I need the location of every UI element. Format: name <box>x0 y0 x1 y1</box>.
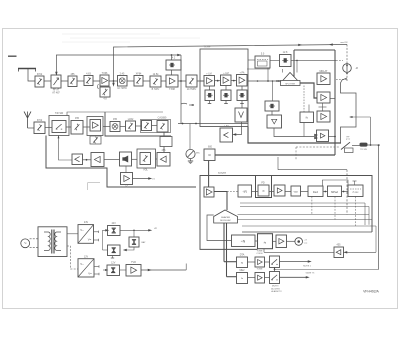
svg-text:3702: 3702 <box>37 119 43 122</box>
svg-text:AT 487: AT 487 <box>52 91 60 94</box>
tone switch TA3 <box>270 256 280 268</box>
svg-text:ACCESS: ACCESS <box>271 287 280 290</box>
filter F5 10.7MHz <box>134 76 143 87</box>
wires tone row B <box>227 276 237 278</box>
filter F7 <box>186 75 197 87</box>
svg-text:V=: V= <box>88 238 92 242</box>
svg-text:TX88: TX88 <box>169 88 175 91</box>
wire chain to XT1 <box>272 81 274 101</box>
amplifier TA1 <box>204 76 215 87</box>
amplifier A2 <box>166 75 178 87</box>
svg-text:CA3089: CA3089 <box>158 116 167 119</box>
wires long vco outputs <box>240 202 365 204</box>
ac source G1 <box>21 239 30 248</box>
svg-text:455: 455 <box>162 149 167 152</box>
ground stubs under modules <box>209 101 211 104</box>
wire AB5 output <box>133 178 151 180</box>
scan artifact dash top left <box>8 55 17 57</box>
svg-text:rf osc: rf osc <box>353 191 360 194</box>
discriminator XT2 <box>267 115 282 128</box>
wire supply link <box>102 230 104 250</box>
svg-text:+ LM: + LM <box>206 72 211 75</box>
wires synth row <box>252 191 259 193</box>
fuse FS2 <box>129 237 139 247</box>
wire group to OSC1 <box>248 59 255 61</box>
svg-text:ALARM TX: ALARM TX <box>271 290 282 293</box>
fuse FS1 <box>108 226 121 236</box>
wire RC2 output stub <box>330 98 335 100</box>
svg-text:10.7MHz: 10.7MHz <box>187 88 197 91</box>
svg-text:≈: ≈ <box>208 154 211 159</box>
amplifier TA3 driver <box>237 75 248 87</box>
svg-text:2.45: 2.45 <box>120 73 125 76</box>
svg-text:SYNTH: SYNTH <box>218 172 226 175</box>
audio oscillator SB1 <box>300 112 314 123</box>
phase detector PD1 shield <box>256 176 272 198</box>
divider DV1 <box>308 186 323 197</box>
limiter LIM1 <box>220 128 233 142</box>
wire relay to gate line <box>368 144 381 146</box>
wire vco to divider N <box>207 215 232 241</box>
filter F4 below amplifier A1 <box>100 87 110 97</box>
svg-text:TONE: TONE <box>256 268 263 270</box>
divider DR1 <box>238 185 252 197</box>
wire gate tx y269 <box>275 269 379 271</box>
wire chain to splitter <box>248 80 281 82</box>
filter F2 <box>68 76 77 87</box>
wire control line y46 <box>114 45 348 85</box>
buffer op box RC4 <box>317 130 329 142</box>
wires lower synth row <box>255 240 258 242</box>
svg-text:vco: vco <box>294 191 299 194</box>
svg-text:VOL: VOL <box>143 169 148 172</box>
regulator amp RG1 <box>126 265 141 277</box>
crystal oscillator X1 above amplifier A2 <box>166 60 181 70</box>
svg-text:TONE: TONE <box>256 250 263 252</box>
svg-text:+ LM: + LM <box>223 72 228 75</box>
wire RA1 to mixer <box>103 126 110 128</box>
svg-text:455: 455 <box>337 244 342 247</box>
rf amplifier RA1 <box>90 120 101 132</box>
converter CV2 12V <box>78 259 94 277</box>
svg-text:LIM: LIM <box>225 125 229 128</box>
wire detector line y169 <box>278 169 347 171</box>
svg-text:~: ~ <box>24 241 27 247</box>
svg-text:PTT: PTT <box>346 139 351 141</box>
svg-text:MDLAT: MDLAT <box>320 70 328 73</box>
voltage regulator V1 <box>235 108 247 122</box>
wire meter dashes <box>346 45 348 64</box>
svg-text:VFH492/A: VFH492/A <box>363 290 379 294</box>
svg-text:BAT: BAT <box>141 241 146 244</box>
microphone meter MIC1 <box>189 124 191 150</box>
wire arrow y117 <box>350 116 370 118</box>
antenna switch RS1 <box>52 121 66 133</box>
if output amp RXO <box>334 247 344 258</box>
svg-text:MUTE /: MUTE / <box>272 286 279 288</box>
svg-text:+ PA: + PA <box>239 71 244 74</box>
af preamp AF1 <box>204 149 215 161</box>
loop filter LF1 <box>274 185 285 196</box>
svg-text:455: 455 <box>113 118 118 121</box>
meter M1 with arrow <box>343 64 352 73</box>
wires dashed under synth row <box>311 197 313 215</box>
svg-text:12V: 12V <box>111 262 116 265</box>
wire meter zigzag to ptt <box>341 78 357 143</box>
mixer RMX1 <box>110 122 120 132</box>
wire heavy AF1 audio bus <box>215 154 335 156</box>
filter F6 <box>150 76 161 87</box>
pa transistor module TB3 <box>237 90 247 101</box>
wire between tone switches <box>274 268 276 272</box>
audio amp AB4 <box>157 153 170 167</box>
wire OSC1 to modulator <box>270 59 280 61</box>
reference crystal XO1 <box>348 185 363 197</box>
audio amp AB1 <box>91 153 104 167</box>
divider DN1 <box>232 235 256 247</box>
svg-text:12.5k: 12.5k <box>153 73 160 76</box>
svg-text:TX66: TX66 <box>102 72 108 75</box>
svg-text:GATE TX: GATE TX <box>306 271 315 274</box>
wire FS1 output +B <box>120 229 149 231</box>
pa transistor module TB1 <box>205 90 215 101</box>
quad detector QD1 <box>160 137 172 147</box>
svg-text:MUTE 1: MUTE 1 <box>303 266 311 268</box>
wire XT2 to RC4 <box>274 128 317 137</box>
mod amplifier SA1 <box>204 187 214 197</box>
svg-text:ME2: ME2 <box>240 269 246 272</box>
modulator box MOD1 <box>280 55 292 67</box>
fuse FS4 12V <box>107 265 120 276</box>
wire AGC line y55 <box>56 55 181 75</box>
svg-text:MIC: MIC <box>196 152 200 154</box>
wire V1 to group border <box>241 122 243 127</box>
svg-text:V~: V~ <box>80 262 84 266</box>
wire group border y112 <box>67 112 163 116</box>
switch PTT <box>341 142 350 149</box>
volume block AB3 outer <box>137 149 156 168</box>
wires transformer outputs <box>67 233 78 235</box>
wire heavy agc x105 <box>105 112 171 136</box>
wires tone row A <box>224 261 237 263</box>
wire RXO output to PD2 <box>264 251 334 253</box>
mixer MX1 <box>118 76 128 87</box>
svg-text:MODULAT: MODULAT <box>220 219 231 222</box>
wire switch control to squelch <box>59 136 73 161</box>
if amplifier RF5 <box>157 121 168 133</box>
svg-text:TR SW: TR SW <box>360 149 367 151</box>
relay RL1 <box>360 143 368 147</box>
wire RC2 to RC3 <box>321 103 323 111</box>
wire under OSC1 <box>247 68 270 70</box>
svg-text:V=: V= <box>88 271 92 275</box>
speaker amp AB5 <box>121 173 133 185</box>
group TX RF output stage <box>200 49 248 127</box>
svg-text:SHAPER: SHAPER <box>221 216 230 219</box>
filter RF3 <box>126 121 136 131</box>
phase detector PD1 <box>258 185 269 196</box>
wire RC4 output to heavy bus <box>329 136 336 138</box>
filter RF2 <box>71 121 83 135</box>
amplifier TA2 <box>221 75 232 86</box>
svg-text:10.7MHz: 10.7MHz <box>117 87 127 90</box>
group synthesizer border <box>200 176 372 250</box>
wires ac to transformer <box>30 238 38 240</box>
svg-text:CODE: CODE <box>256 253 263 255</box>
wires converter output taps <box>94 231 99 233</box>
wire heavy SA1 out <box>214 192 227 211</box>
wire vertical x181 <box>180 55 182 124</box>
attenuator AT1 <box>51 75 61 88</box>
if group outline <box>141 120 171 133</box>
converter CV1 24V <box>78 225 94 244</box>
svg-text:DTA: DTA <box>240 254 245 257</box>
phase detector PD2 <box>258 234 273 249</box>
squelch SQ1 <box>72 154 83 165</box>
tone oscillator TA1 <box>237 257 248 268</box>
tone switch TB3 <box>270 272 280 284</box>
wire heavy AF1 to synth amp <box>208 161 210 188</box>
amplifier A1 <box>100 75 109 86</box>
wire dashed x347 down <box>346 170 348 215</box>
svg-text:4.83: 4.83 <box>86 73 91 76</box>
wire MOD1 output bus <box>291 59 336 61</box>
svg-text:÷R: ÷R <box>243 190 248 194</box>
if amplifier RF4 <box>142 121 152 131</box>
ghost print-through lines <box>62 33 160 35</box>
svg-text:AF: AF <box>125 185 129 188</box>
wire gate vertical x378 <box>378 145 380 269</box>
svg-text:SPLITTER: SPLITTER <box>285 83 295 85</box>
svg-text:÷N: ÷N <box>241 240 246 244</box>
wire heavy TX feed to PTT <box>248 127 341 144</box>
wires amplifier to module <box>209 86 211 90</box>
svg-text:B 7kHz: B 7kHz <box>152 88 161 91</box>
wire RG1 long output <box>141 269 186 271</box>
svg-text:3702: 3702 <box>37 73 43 76</box>
antenna switch RS1 outer <box>49 116 69 136</box>
filter RF2b below RA1 <box>90 136 101 144</box>
wire heavy audio return <box>46 136 196 188</box>
svg-text:12V: 12V <box>84 255 89 258</box>
svg-text:PD: PD <box>261 181 265 184</box>
wire PTT to relay <box>352 145 360 147</box>
wire RF5 to detector <box>163 132 165 153</box>
wire heavy splitter TX out <box>300 83 317 98</box>
wire splitter rx dashes <box>296 146 340 148</box>
vco modulator trapezoid VCO1 <box>214 210 238 223</box>
svg-text:600: 600 <box>208 146 213 149</box>
filter F3 <box>84 76 93 86</box>
antenna AN2 whip <box>24 112 31 129</box>
wire bias line y123.5 <box>178 123 248 125</box>
filter F1 input bandpass <box>35 76 44 87</box>
svg-text:Decl: Decl <box>313 190 319 194</box>
amplifier RC2 <box>317 92 330 103</box>
wire divider jog top <box>322 180 348 186</box>
svg-text:24V: 24V <box>84 221 89 224</box>
ground under MIC1 <box>190 159 192 161</box>
wire main chain y81 <box>35 80 204 82</box>
svg-text:V~: V~ <box>80 228 84 232</box>
volume block AB3 <box>140 153 151 165</box>
wire heavy mic to modulator <box>293 50 295 77</box>
svg-text:12.8: 12.8 <box>283 51 288 54</box>
tone amp TB2 <box>255 273 265 284</box>
tone oscillator TB1 <box>237 273 248 284</box>
tone amp TA2 <box>255 257 265 267</box>
oscillator box OSC1 <box>255 56 270 68</box>
amplifier RC1 <box>317 73 330 85</box>
wire V1 to LIM1 <box>235 127 242 135</box>
svg-text:MPad: MPad <box>331 190 338 194</box>
wire corner bracket <box>88 183 101 190</box>
loop amp LF2 <box>276 235 287 248</box>
svg-text:T/R SW: T/R SW <box>55 112 64 115</box>
vco box VC1 <box>291 186 301 196</box>
power tap symbol <box>181 102 187 105</box>
amplifier RC3 <box>317 111 330 122</box>
svg-text:≈: ≈ <box>241 277 243 281</box>
svg-text:TX RF: TX RF <box>204 46 211 49</box>
svg-text:24V: 24V <box>112 222 117 225</box>
speaker driver AB2 <box>120 152 132 166</box>
wires audio row <box>156 158 158 160</box>
svg-text:-M: -M <box>355 67 358 70</box>
splitter SP1 <box>281 73 301 84</box>
pa transistor module TB2 <box>221 90 231 101</box>
svg-text:455: 455 <box>71 73 76 76</box>
antenna AN1 <box>18 68 36 81</box>
wire bus to splitter top <box>296 60 298 72</box>
loudspeaker indicator LS1 <box>295 238 303 246</box>
transformer T1 <box>38 227 67 257</box>
svg-text:TVR: TVR <box>131 261 136 264</box>
filter RF1 <box>34 122 45 134</box>
wire into RXO <box>344 251 377 253</box>
svg-text:XF84: XF84 <box>136 73 142 76</box>
svg-text:LA52: LA52 <box>128 118 134 121</box>
divider DV2 <box>328 186 342 197</box>
crystal box XT1 <box>265 101 279 111</box>
rf amplifier RA1 outer <box>87 117 103 136</box>
wire heavy vco feeds down <box>223 223 225 262</box>
fuse FS3 <box>108 245 121 256</box>
svg-text:mod 9V: mod 9V <box>340 42 348 44</box>
svg-text:455: 455 <box>75 117 80 120</box>
wire OSC1 down <box>267 68 269 81</box>
